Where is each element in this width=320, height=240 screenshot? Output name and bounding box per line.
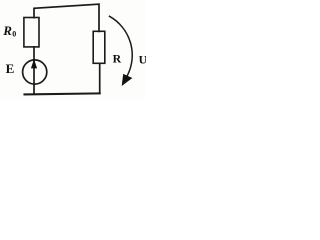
svg-text:R: R	[113, 52, 122, 66]
svg-text:E: E	[6, 61, 15, 76]
svg-text:U: U	[139, 53, 146, 67]
svg-text:0: 0	[12, 30, 16, 39]
svg-text:R: R	[2, 23, 12, 38]
